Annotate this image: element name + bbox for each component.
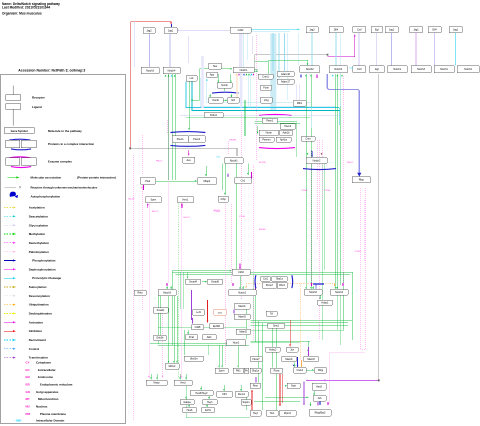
node Jag1 <box>164 28 177 34</box>
svg-text:Psen2: Psen2 <box>284 125 292 128</box>
svg-text:Lef1: Lef1 <box>196 311 201 314</box>
wire translocation x311 <box>317 140 319 240</box>
node Cntn <box>301 137 315 142</box>
complex bar Notch2n <box>313 283 324 285</box>
svg-text:Cntn1: Cntn1 <box>262 75 269 78</box>
svg-text:Notch2: Notch2 <box>464 68 472 71</box>
wire green Hes5 to add <box>313 391 315 395</box>
wire green x244 <box>243 100 245 136</box>
svg-text:—: — <box>310 282 312 284</box>
node Smad1 <box>153 308 168 314</box>
wire green to Itch <box>231 94 233 97</box>
wire red inhibition Zfpm <box>279 374 281 406</box>
wire lavender x299 to Mfng <box>298 85 300 101</box>
wire lavender x134 <box>134 22 136 67</box>
wire green h 123 <box>255 122 301 124</box>
wire magenta dark down <box>251 172 253 179</box>
svg-text:Plek: Plek <box>145 180 151 183</box>
svg-text:Gene Symbol: Gene Symbol <box>11 129 28 133</box>
legend arrow Activation <box>4 321 16 323</box>
svg-text:Mfap2: Mfap2 <box>204 180 211 183</box>
wire green x219 to Spen <box>218 345 219 367</box>
wire green Notch1-Cntn1 <box>255 69 259 71</box>
legend arrow Demethylation <box>4 242 16 244</box>
wire Cdn to Jag2 cyan <box>251 29 299 31</box>
svg-text:Ncstn: Ncstn <box>266 132 273 135</box>
svg-text:Endoplasmic reticulum: Endoplasmic reticulum <box>40 383 73 387</box>
wire Jag1-Notch4 <box>169 34 171 67</box>
svg-text:Notch3: Notch3 <box>146 69 154 72</box>
svg-text:Notch4: Notch4 <box>168 69 176 72</box>
svg-text:Cul1: Cul1 <box>263 278 269 281</box>
svg-text:Jun: Jun <box>290 348 295 351</box>
wire magenta arrow Cdn2 <box>239 264 241 269</box>
svg-text:Hes6: Hes6 <box>187 409 193 412</box>
wire green to Cir1 <box>247 163 249 174</box>
svg-text:—: — <box>329 161 331 163</box>
wire gray unknown mechanism to NICD <box>131 148 237 156</box>
wire translocation x322 <box>321 140 323 200</box>
wire translocation x168 <box>167 75 169 284</box>
svg-text:Sqstm: Sqstm <box>243 401 250 404</box>
svg-text:Maml3: Maml3 <box>307 358 315 361</box>
arrowhead cluster Notch1 5 <box>248 73 250 75</box>
legend frame <box>1 74 126 423</box>
node Rbx1 <box>277 283 287 289</box>
wire translocation x329 <box>329 353 331 405</box>
svg-text:Notch1: Notch1 <box>440 68 448 71</box>
node Sqstm <box>241 400 251 406</box>
svg-text:Deubiquitination: Deubiquitination <box>29 312 52 316</box>
node Dll4 <box>428 27 441 33</box>
svg-text:Rbx1: Rbx1 <box>279 284 285 287</box>
svg-text:Ptcra: Ptcra <box>274 370 280 373</box>
wire green arrow Pcaf <box>187 330 189 334</box>
legend receptor stem <box>12 86 14 95</box>
svg-text:Proteins in a complex interact: Proteins in a complex interaction <box>48 142 94 146</box>
node Hes5 <box>312 383 326 390</box>
svg-text:Cntf: Cntf <box>357 29 362 32</box>
svg-text:Smad6: Smad6 <box>211 281 219 284</box>
wire green arrow Nrarp b <box>156 374 158 379</box>
arrowhead cluster Notch1 3 <box>243 73 245 75</box>
wire magenta up Plek <box>143 185 145 190</box>
wire red x282 <box>281 374 283 403</box>
wire ligand-receptor x416 <box>415 33 417 66</box>
legend arrow Inhibition <box>4 330 16 332</box>
wire green x276 <box>275 325 277 410</box>
wire green arrow Hes5Hey <box>200 386 202 390</box>
complex arc Psen top <box>170 131 205 134</box>
wire violet to Mamlx <box>308 347 310 356</box>
wire green x160 down <box>159 290 161 335</box>
node Ncst <box>287 383 300 389</box>
node Cntf <box>353 27 366 33</box>
wire cyan x340 upper <box>339 34 341 107</box>
arrowhead cluster Notch1 6 <box>251 73 253 75</box>
svg-text:NU-CY: NU-CY <box>184 217 191 219</box>
legend arrow Glycosylation <box>4 224 16 226</box>
svg-text:Rbpj: Rbpj <box>359 179 364 182</box>
svg-text:Glycosylation: Glycosylation <box>29 223 48 227</box>
legend arrow Deubiquitination <box>4 312 16 314</box>
node Heyl <box>174 380 192 386</box>
svg-text:Ligand: Ligand <box>32 105 42 109</box>
svg-text:PM: PM <box>26 412 31 416</box>
svg-text:Notch2: Notch2 <box>309 291 317 294</box>
arrowhead cluster Notch4b 2 <box>341 75 343 77</box>
svg-text:Maml2: Maml2 <box>240 331 248 334</box>
wire green h272 <box>173 271 354 273</box>
node Mfap2 <box>197 178 216 184</box>
wire cyan to Adam17 <box>278 33 280 78</box>
wire green arrow Notch4n <box>336 286 338 289</box>
wire green Crtc to Rbpjx <box>307 369 314 371</box>
svg-text:CY-NU: CY-NU <box>239 216 246 218</box>
wire translocation x343 <box>343 76 345 283</box>
wire green Notch1 to Cntn1 loop <box>255 61 269 75</box>
wire membrane red inhibition to Jag1 <box>131 22 172 149</box>
svg-text:Last Modified: 20210523101644: Last Modified: 20210523101644 <box>2 6 50 10</box>
wire green h325 <box>251 324 349 326</box>
arrowhead cluster Notch4 0 <box>165 75 167 77</box>
legend arrow Proteolytic Cleavage <box>4 277 16 279</box>
svg-text:Dtx1: Dtx1 <box>218 311 223 314</box>
svg-text:Egf: Egf <box>375 29 379 32</box>
svg-text:Fbxw7: Fbxw7 <box>252 358 260 361</box>
wire green Lck down to Psen complex <box>188 81 190 130</box>
svg-text:Deacetylation: Deacetylation <box>29 214 48 218</box>
svg-text:?: ? <box>19 186 21 190</box>
node Notch4 <box>329 66 347 73</box>
wire green x352 <box>351 272 353 340</box>
node Egf <box>370 66 385 73</box>
wire green Notch1 to Numb b <box>230 74 232 82</box>
svg-text:Maml3: Maml3 <box>238 316 246 319</box>
svg-text:Mitochondrion: Mitochondrion <box>38 397 59 401</box>
legend autophosphorylation icon <box>10 192 16 197</box>
wire cyan x311 upper <box>310 107 312 128</box>
wire ligand-receptor x434.5 <box>434 33 436 66</box>
node Lfng <box>261 97 273 103</box>
wire green h322 <box>251 322 349 324</box>
wire navy arrow NICD2 <box>311 151 313 157</box>
wire slate Notch2 to Rbpj <box>327 74 359 173</box>
node Pcaf <box>186 335 198 340</box>
band pale lavender x202 <box>201 56 204 108</box>
node Smad6 <box>208 279 223 285</box>
svg-text:Numb: Numb <box>213 99 220 102</box>
wire green trunk 344 <box>150 343 246 345</box>
svg-text:Adam17: Adam17 <box>281 80 291 83</box>
arrowhead NICD2 0 <box>307 153 309 155</box>
wire orange arrow Crtc <box>301 360 303 367</box>
legend arrow Methylation <box>4 233 16 235</box>
node Jag1 <box>410 27 423 33</box>
svg-text:NU-CY: NU-CY <box>152 211 159 213</box>
band pale cyan x270-276 <box>270 34 276 112</box>
svg-text:Jag1: Jag1 <box>413 29 419 32</box>
node Cir1 <box>235 177 252 183</box>
node Notch4 <box>163 67 180 74</box>
wire violet arrow Ctbp area <box>227 174 229 178</box>
svg-text:Mdm2: Mdm2 <box>169 365 176 368</box>
svg-text:Numb: Numb <box>221 84 228 87</box>
node Nrarp <box>146 380 167 386</box>
wire green to Mamlx <box>307 341 309 352</box>
complex arc Numb-Itch top <box>212 91 239 94</box>
wire translocation x319 <box>318 140 320 340</box>
svg-text:CY-NU: CY-NU <box>355 251 362 253</box>
node Notch3 <box>411 66 431 73</box>
wire gray unknown mechanism Notch1 to junction <box>255 55 327 68</box>
wire cyan x339 down <box>338 108 340 126</box>
wire magenta arrow Notch3n <box>166 283 168 286</box>
node Maml1 <box>282 357 297 362</box>
svg-text:Fbxw7: Fbxw7 <box>266 284 274 287</box>
svg-text:Gabpa: Gabpa <box>183 401 191 404</box>
svg-text:ICN: ICN <box>350 68 354 70</box>
wire green h401 <box>254 401 300 403</box>
svg-text:Plasma membrane: Plasma membrane <box>40 412 66 416</box>
wire translocation x256 <box>256 35 258 160</box>
node Spen <box>215 368 228 374</box>
wire green Plek to Mfap <box>156 180 197 182</box>
node Smad4 <box>186 279 201 285</box>
legend arrow Palmitoylation <box>4 251 16 253</box>
wire green x340 below <box>339 295 341 345</box>
svg-text:Maml1: Maml1 <box>238 305 246 308</box>
complex arc Psen bottom <box>170 144 205 147</box>
node Notch3 <box>141 67 159 74</box>
wire violet arrow Cdk8b <box>192 318 194 324</box>
svg-text:Control: Control <box>29 347 40 351</box>
svg-text:—: — <box>332 161 334 163</box>
node Jag1 <box>449 27 462 33</box>
node Rbpj/Bat3 <box>309 410 331 417</box>
svg-text:Ctbp: Ctbp <box>221 198 227 201</box>
arrowhead cluster Notch2b 0 <box>305 75 307 77</box>
wire green x183 nucleus <box>182 272 184 309</box>
svg-text:—: — <box>356 290 358 292</box>
wire magenta SCF down <box>255 283 257 290</box>
arrowhead cyan App <box>206 79 208 81</box>
arrowhead cluster Notch4b 0 <box>332 75 334 77</box>
node Hes <box>209 63 222 69</box>
svg-text:Runx1: Runx1 <box>238 393 246 396</box>
svg-text:—: — <box>154 297 156 299</box>
wire green arrow Heyl b <box>185 374 187 379</box>
svg-text:Egf: Egf <box>375 68 379 71</box>
wire green Smad4 to Smad8 <box>202 281 207 283</box>
wire orange to Notch1n <box>245 284 247 289</box>
wire green x255 <box>254 287 256 343</box>
svg-text:Psenen: Psenen <box>262 138 271 141</box>
svg-text:Golgi apparatus: Golgi apparatus <box>36 390 59 394</box>
arrowhead cluster Notch1 7 <box>253 73 255 75</box>
node Hes1 <box>178 197 194 203</box>
node Hdac1 <box>318 300 333 305</box>
node Cntn1 <box>258 74 273 79</box>
legend complex arc top <box>9 138 30 141</box>
svg-text:Jag1: Jag1 <box>168 29 174 32</box>
legend complex box 2 <box>21 140 36 147</box>
legend receptor box <box>6 95 21 100</box>
wire translocation h352 <box>330 352 366 354</box>
wire green x337 below <box>337 295 339 330</box>
wire orange arrow Notch4n <box>334 284 336 287</box>
svg-text:(Protein-protein interaction): (Protein-protein interaction) <box>77 176 116 180</box>
node Notch4 <box>330 290 348 296</box>
wire ligand-receptor x359 <box>358 33 360 66</box>
legend ligand stem <box>12 109 14 126</box>
wire translocation x149 <box>148 204 150 378</box>
svg-text:Reaction through unknown mecha: Reaction through unknown mechanism/molec… <box>31 186 98 190</box>
wire cyan under Notch1 a <box>248 74 250 109</box>
wire green x184 down <box>183 330 185 355</box>
wire green arrow Gabp <box>185 396 187 399</box>
node Rela <box>134 290 146 296</box>
svg-text:Heyl: Heyl <box>253 412 258 415</box>
node Furin <box>261 85 272 91</box>
band pale lavender x240 <box>240 34 243 108</box>
node Jag2 <box>143 28 155 34</box>
svg-text:ICN: ICN <box>217 156 221 158</box>
svg-text:Furin: Furin <box>263 87 269 90</box>
node Psen1 <box>172 136 188 143</box>
svg-text:Autophosphorylation: Autophosphorylation <box>31 194 61 198</box>
legend enzyme box 2 <box>21 158 36 165</box>
arrowhead cluster Notch2b 1 <box>310 75 312 77</box>
svg-text:Proteolytic Cleavage: Proteolytic Cleavage <box>32 276 61 280</box>
complex bar SCF left <box>254 275 257 288</box>
svg-text:Rela: Rela <box>137 292 143 295</box>
node Errfi1 <box>202 408 215 413</box>
node Cdh2 <box>232 269 250 275</box>
svg-text:Cdh2: Cdh2 <box>238 29 244 32</box>
wire ligand-receptor x312 <box>311 33 313 66</box>
wire green x174 down <box>173 296 175 362</box>
wire translocation left edge <box>132 155 134 420</box>
node Ptcra <box>271 368 283 374</box>
wire stub <box>261 410 263 416</box>
node Ube2m <box>184 356 204 361</box>
node Runx1 <box>235 392 248 398</box>
svg-text:Tcf: Tcf <box>270 312 273 315</box>
wire ligand-receptor x455.7 <box>455 33 457 66</box>
svg-text:Cytoplasm: Cytoplasm <box>36 360 51 364</box>
wire green arrow Runx <box>240 385 242 391</box>
wire green arrow Notch2b <box>307 62 309 65</box>
svg-text:Ncst: Ncst <box>291 385 296 388</box>
wire translocation x253 <box>252 165 254 340</box>
node Psen1 <box>262 118 278 123</box>
wire Jag1-Cdn lavender <box>177 29 230 31</box>
wire navy arrow Notch2b <box>300 75 302 78</box>
wire green x177 down <box>176 296 178 362</box>
legend complex arc bottom <box>11 148 31 151</box>
svg-text:Receptor: Receptor <box>32 96 46 100</box>
svg-text:Psen2: Psen2 <box>193 138 201 141</box>
node Lef1 <box>193 310 205 316</box>
svg-text:Snw1: Snw1 <box>273 325 280 328</box>
wire green arrow Klf4 <box>223 385 225 391</box>
svg-text:Jub: Jub <box>318 397 323 400</box>
wire cyan to Adam10 b <box>284 33 286 71</box>
wire translocation x231 <box>230 204 232 284</box>
node Hdac2 <box>266 347 281 352</box>
svg-text:Extracellular: Extracellular <box>38 368 56 372</box>
wire navy arrow Crtc <box>297 357 299 367</box>
node Tle1 <box>266 411 278 417</box>
node Egf <box>371 27 383 33</box>
node Mdm2 <box>165 364 179 370</box>
node Cdk8 <box>192 325 204 330</box>
svg-text:Ep300: Ep300 <box>213 325 221 328</box>
svg-text:Endosome: Endosome <box>38 375 53 379</box>
svg-text:Notch1: Notch1 <box>393 68 401 71</box>
node Notch2 <box>304 290 322 296</box>
wire navy arrow Rbpjb <box>319 399 321 405</box>
wire translocation x364 <box>364 200 366 262</box>
svg-text:Nucleus: Nucleus <box>36 405 48 409</box>
legend arrow Phosphorylation <box>4 259 16 261</box>
node Lck <box>186 76 197 82</box>
wire green trunk 345 <box>158 345 249 347</box>
wire green dashed x178 <box>178 204 180 378</box>
wire green top to Notch2b <box>268 60 308 62</box>
svg-text:Klf4: Klf4 <box>222 393 227 396</box>
svg-text:Inhibition: Inhibition <box>29 329 42 333</box>
node Aph1a <box>276 137 291 142</box>
svg-text:Akt1: Akt1 <box>207 336 213 339</box>
wire green x262 <box>261 323 263 411</box>
legend complex box 1 <box>6 140 20 147</box>
wire pale cyan x298 <box>298 33 300 65</box>
legend arrow Control <box>4 348 16 350</box>
wire green vertical x175 <box>175 74 177 180</box>
wire pale cyan x287 <box>286 33 288 100</box>
wire green arrow Rbpj bottom <box>310 402 312 406</box>
wire green x158 <box>157 290 159 344</box>
legend enzyme arc top <box>9 156 30 159</box>
wire green arrow Nrarp <box>150 374 152 379</box>
wire green bottom loop <box>185 386 187 418</box>
svg-text:Methylation: Methylation <box>29 232 46 236</box>
wire magenta up Spen <box>147 203 149 208</box>
wire Jag2-Notch3 <box>149 34 151 67</box>
node Klf4 <box>217 392 233 398</box>
svg-text:Adam10: Adam10 <box>281 73 291 76</box>
wire violet to Rbpj bottom <box>303 382 305 405</box>
svg-text:Cntf: Cntf <box>357 68 362 71</box>
junction square gray2 <box>327 54 329 56</box>
node Heyl <box>250 411 261 417</box>
legend enzyme arc bottom <box>11 166 31 169</box>
wire cyan Cdn down c <box>246 33 248 60</box>
node Spen <box>146 197 161 203</box>
wire ligand-receptor x336 <box>335 33 337 66</box>
wire green to Ncst <box>285 385 287 387</box>
svg-text:Hes1: Hes1 <box>183 199 189 202</box>
wire violet arrow Rest <box>255 377 257 383</box>
junction square gray1 <box>129 147 131 149</box>
node Ncor2 <box>227 340 246 346</box>
wire green Notch1 to Numb a <box>218 74 220 82</box>
node Plek <box>140 178 156 184</box>
wire teal horizontal 110 <box>192 82 340 111</box>
wire green x296 <box>295 123 297 158</box>
